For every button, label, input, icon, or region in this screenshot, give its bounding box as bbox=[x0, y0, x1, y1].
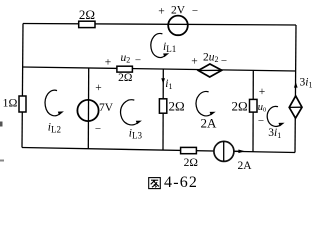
svg-text:−: − bbox=[192, 5, 198, 17]
svg-text:+: + bbox=[95, 82, 102, 94]
svg-text:−: − bbox=[95, 123, 101, 135]
svg-text:2Ω: 2Ω bbox=[184, 157, 198, 169]
svg-text:2Ω: 2Ω bbox=[169, 99, 185, 114]
svg-text:2A: 2A bbox=[201, 115, 218, 130]
svg-text:+: + bbox=[158, 6, 165, 18]
svg-text:−: − bbox=[135, 54, 141, 66]
svg-text:+: + bbox=[259, 86, 266, 98]
svg-text:+: + bbox=[191, 56, 198, 68]
svg-text:2Ω: 2Ω bbox=[79, 7, 95, 22]
svg-text:1Ω: 1Ω bbox=[3, 96, 18, 110]
svg-text:4-62: 4-62 bbox=[164, 174, 198, 191]
svg-text:+: + bbox=[105, 56, 112, 68]
svg-text:2Ω: 2Ω bbox=[118, 72, 132, 84]
svg-text:−: − bbox=[258, 115, 264, 127]
svg-text:−: − bbox=[221, 55, 227, 67]
svg-text:2A: 2A bbox=[238, 160, 253, 172]
svg-text:2V: 2V bbox=[171, 5, 186, 17]
svg-text:7V: 7V bbox=[99, 102, 114, 114]
svg-text:2Ω: 2Ω bbox=[232, 98, 248, 113]
